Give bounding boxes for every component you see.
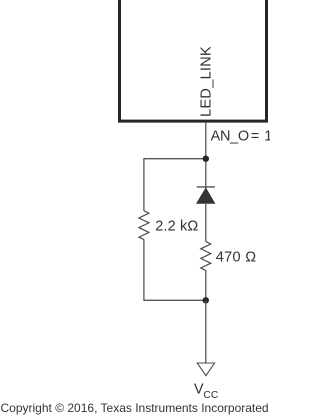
resistor 2.2 k: [139, 211, 149, 240]
wire top rail: [144, 158, 206, 160]
resistor 470: [201, 242, 211, 271]
node A junction dot: [203, 156, 209, 162]
wire right branch (node A to diode): [205, 159, 207, 188]
svg-text:2.2 kΩ: 2.2 kΩ: [155, 218, 198, 234]
svg-text:AN_O=1: AN_O=1: [211, 129, 270, 145]
node B junction dot: [203, 297, 209, 303]
power symbol VCC (open triangle): [197, 363, 214, 376]
wire resistor to node B: [205, 270, 207, 300]
wire pin to node A: [205, 123, 207, 159]
wire left branch lower: [143, 240, 145, 301]
diode D1 body: [196, 187, 215, 203]
svg-text:LED_LINK: LED_LINK: [198, 46, 214, 117]
wire node B to VCC symbol: [205, 300, 207, 363]
wire diode to resistor: [205, 204, 207, 242]
svg-text:V: V: [194, 382, 204, 398]
wire bottom rail: [144, 299, 206, 301]
diode D1 cathode bar: [197, 186, 215, 188]
svg-text:Copyright © 2016, Texas Instru: Copyright © 2016, Texas Instruments Inco…: [1, 401, 269, 415]
svg-text:470 Ω: 470 Ω: [216, 250, 257, 266]
IC box U1 (top edge off-canvas): [120, 0, 267, 121]
wire left branch upper: [143, 158, 145, 211]
svg-text:CC: CC: [203, 390, 218, 401]
